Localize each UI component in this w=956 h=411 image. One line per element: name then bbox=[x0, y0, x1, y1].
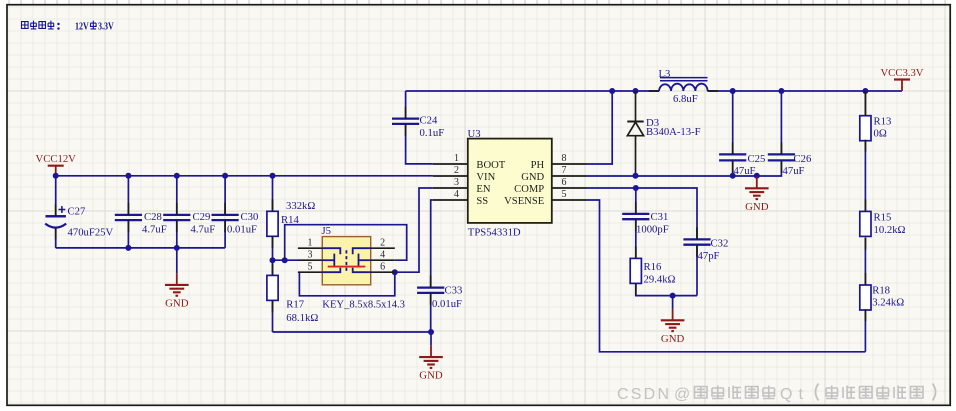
capacitor C27 bbox=[45, 176, 113, 248]
svg-text:10.2kΩ: 10.2kΩ bbox=[874, 224, 906, 236]
wire EN divider node to J5 pin3 bbox=[273, 259, 299, 261]
svg-text:R18: R18 bbox=[872, 285, 890, 297]
svg-text:47pF: 47pF bbox=[698, 250, 720, 262]
svg-text:2: 2 bbox=[454, 165, 459, 176]
svg-text:C28: C28 bbox=[144, 211, 162, 223]
svg-text:68.1kΩ: 68.1kΩ bbox=[286, 312, 318, 324]
svg-text:COMP: COMP bbox=[514, 184, 544, 195]
inductor L3 bbox=[659, 68, 708, 105]
svg-text:4.7uF: 4.7uF bbox=[142, 224, 167, 236]
component pin stubs bbox=[56, 91, 866, 321]
ground GND under C25/C26 bbox=[745, 177, 769, 213]
ground GND under capacitor bank bbox=[165, 248, 189, 310]
svg-text:7: 7 bbox=[562, 165, 567, 176]
wire top PH rail bbox=[406, 90, 659, 92]
resistor R16 bbox=[630, 258, 675, 285]
svg-text:U3: U3 bbox=[468, 128, 481, 140]
svg-text:GND: GND bbox=[165, 297, 189, 309]
op-amp/regulator U3 TPS54331D bbox=[433, 128, 587, 239]
svg-text:PH: PH bbox=[531, 160, 545, 171]
svg-text:4: 4 bbox=[454, 189, 459, 200]
svg-text:@: @ bbox=[674, 386, 690, 403]
svg-text:6.8uF: 6.8uF bbox=[673, 93, 698, 105]
svg-text:C31: C31 bbox=[651, 211, 669, 223]
svg-text:R17: R17 bbox=[286, 299, 304, 311]
capacitor C29 bbox=[163, 176, 215, 248]
svg-text:VIN: VIN bbox=[476, 172, 495, 183]
svg-text:3: 3 bbox=[308, 249, 313, 260]
wire J5 pin6 to EN pin of U3 bbox=[395, 188, 433, 272]
svg-text:R13: R13 bbox=[874, 116, 892, 128]
ground GND under R16 bbox=[661, 296, 685, 345]
capacitor C32 bbox=[683, 237, 728, 295]
wire R14 column bbox=[272, 176, 274, 332]
wire bottom rail R17 to C33 GND bbox=[273, 331, 432, 333]
svg-text:0.1uF: 0.1uF bbox=[420, 127, 445, 139]
svg-text:5: 5 bbox=[308, 261, 313, 272]
svg-text:VSENSE: VSENSE bbox=[504, 196, 544, 207]
svg-text:KEY_8.5x8.5x14.3: KEY_8.5x8.5x14.3 bbox=[322, 300, 405, 311]
power port VCC12V bbox=[36, 153, 77, 176]
resistor R14 bbox=[267, 200, 315, 236]
svg-text:47uF: 47uF bbox=[734, 165, 756, 177]
svg-text:R15: R15 bbox=[874, 212, 892, 224]
connector J5 KEY switch bbox=[298, 225, 405, 310]
capacitor C25 bbox=[719, 91, 765, 177]
svg-text:GND: GND bbox=[745, 201, 769, 213]
wire VSENSE pin to divider bottom bbox=[587, 200, 865, 352]
resistor R13 bbox=[860, 116, 892, 141]
svg-text:C27: C27 bbox=[68, 206, 86, 218]
capacitor C30 bbox=[212, 176, 259, 248]
wire R16/C32 bottom rail bbox=[636, 283, 697, 295]
svg-text:GND: GND bbox=[419, 370, 443, 382]
svg-text:0.01uF: 0.01uF bbox=[227, 224, 257, 236]
svg-text:4: 4 bbox=[380, 249, 385, 260]
svg-text:332kΩ: 332kΩ bbox=[286, 200, 315, 212]
svg-text:3.24kΩ: 3.24kΩ bbox=[872, 296, 904, 308]
wire U-loop J5 pin5 to pin6 bbox=[299, 272, 394, 296]
watermark bbox=[617, 384, 936, 404]
svg-text:4.7uF: 4.7uF bbox=[191, 224, 216, 236]
svg-text:29.4kΩ: 29.4kΩ bbox=[644, 273, 676, 285]
svg-text:470uF25V: 470uF25V bbox=[68, 227, 114, 239]
svg-text:GND: GND bbox=[521, 172, 544, 183]
svg-text:SS: SS bbox=[476, 196, 488, 207]
svg-text:3.3V: 3.3V bbox=[98, 21, 114, 32]
svg-text:C29: C29 bbox=[193, 211, 211, 223]
capacitor C33 bbox=[417, 200, 462, 332]
wire COMP pin to C32 bbox=[587, 188, 697, 239]
svg-text:B340A-13-F: B340A-13-F bbox=[646, 126, 701, 138]
svg-text:0Ω: 0Ω bbox=[874, 127, 887, 139]
svg-text:Qt: Qt bbox=[780, 386, 804, 403]
capacitor C31 bbox=[622, 188, 669, 258]
svg-text:8: 8 bbox=[562, 153, 567, 164]
capacitor C26 bbox=[768, 91, 812, 177]
power port VCC3.3V bbox=[880, 67, 923, 91]
svg-text:J5: J5 bbox=[322, 225, 332, 237]
resistor R17 bbox=[267, 275, 318, 323]
svg-text:5: 5 bbox=[562, 189, 567, 200]
svg-text:47uF: 47uF bbox=[783, 165, 805, 177]
capacitor C28 bbox=[115, 176, 167, 248]
svg-text:6: 6 bbox=[562, 177, 567, 188]
svg-text:1000pF: 1000pF bbox=[636, 224, 669, 236]
svg-text:BOOT: BOOT bbox=[476, 160, 505, 171]
svg-text:R16: R16 bbox=[644, 261, 662, 273]
svg-text:6: 6 bbox=[380, 261, 385, 272]
wire GND pin7 rail to C26 bbox=[587, 161, 781, 176]
junction dots on VIN rail bbox=[53, 173, 59, 179]
svg-text:L3: L3 bbox=[659, 68, 671, 80]
svg-text:CSDN: CSDN bbox=[617, 386, 669, 403]
title text 电源模块：12V转3.3V bbox=[22, 21, 115, 33]
svg-text:2: 2 bbox=[380, 237, 385, 248]
svg-text:VCC3.3V: VCC3.3V bbox=[880, 67, 923, 79]
ground GND under C33 bbox=[419, 332, 443, 382]
wire loop over J5 to pin 4 bbox=[285, 225, 407, 261]
svg-text:C24: C24 bbox=[420, 114, 438, 126]
diode D3 B340A-13-F bbox=[627, 91, 700, 176]
svg-text:EN: EN bbox=[476, 184, 490, 195]
wire VIN rail from VCC12V to U3 pin 2 bbox=[56, 175, 433, 177]
svg-text:1: 1 bbox=[454, 153, 459, 164]
svg-text:3: 3 bbox=[454, 177, 459, 188]
svg-text:C32: C32 bbox=[711, 237, 729, 249]
svg-text:VCC12V: VCC12V bbox=[36, 153, 77, 165]
svg-text:TPS54331D: TPS54331D bbox=[468, 226, 521, 238]
wire PH pin to top rail bbox=[587, 91, 612, 164]
svg-text:GND: GND bbox=[661, 333, 685, 345]
wire bottom capacitor-bank rail bbox=[56, 247, 225, 249]
resistor R15 bbox=[860, 211, 906, 236]
svg-text:1: 1 bbox=[308, 237, 313, 248]
junction dots on bottom rail bbox=[125, 245, 131, 251]
svg-text:C25: C25 bbox=[748, 153, 766, 165]
capacitor C24 bbox=[392, 91, 444, 164]
svg-text:C30: C30 bbox=[241, 211, 259, 223]
wire R13 column bbox=[864, 91, 866, 352]
svg-text:0.01uF: 0.01uF bbox=[432, 298, 462, 310]
svg-text:C26: C26 bbox=[794, 153, 812, 165]
resistor R18 bbox=[860, 285, 904, 310]
svg-text:12V: 12V bbox=[75, 21, 89, 32]
svg-text:C33: C33 bbox=[445, 284, 463, 296]
